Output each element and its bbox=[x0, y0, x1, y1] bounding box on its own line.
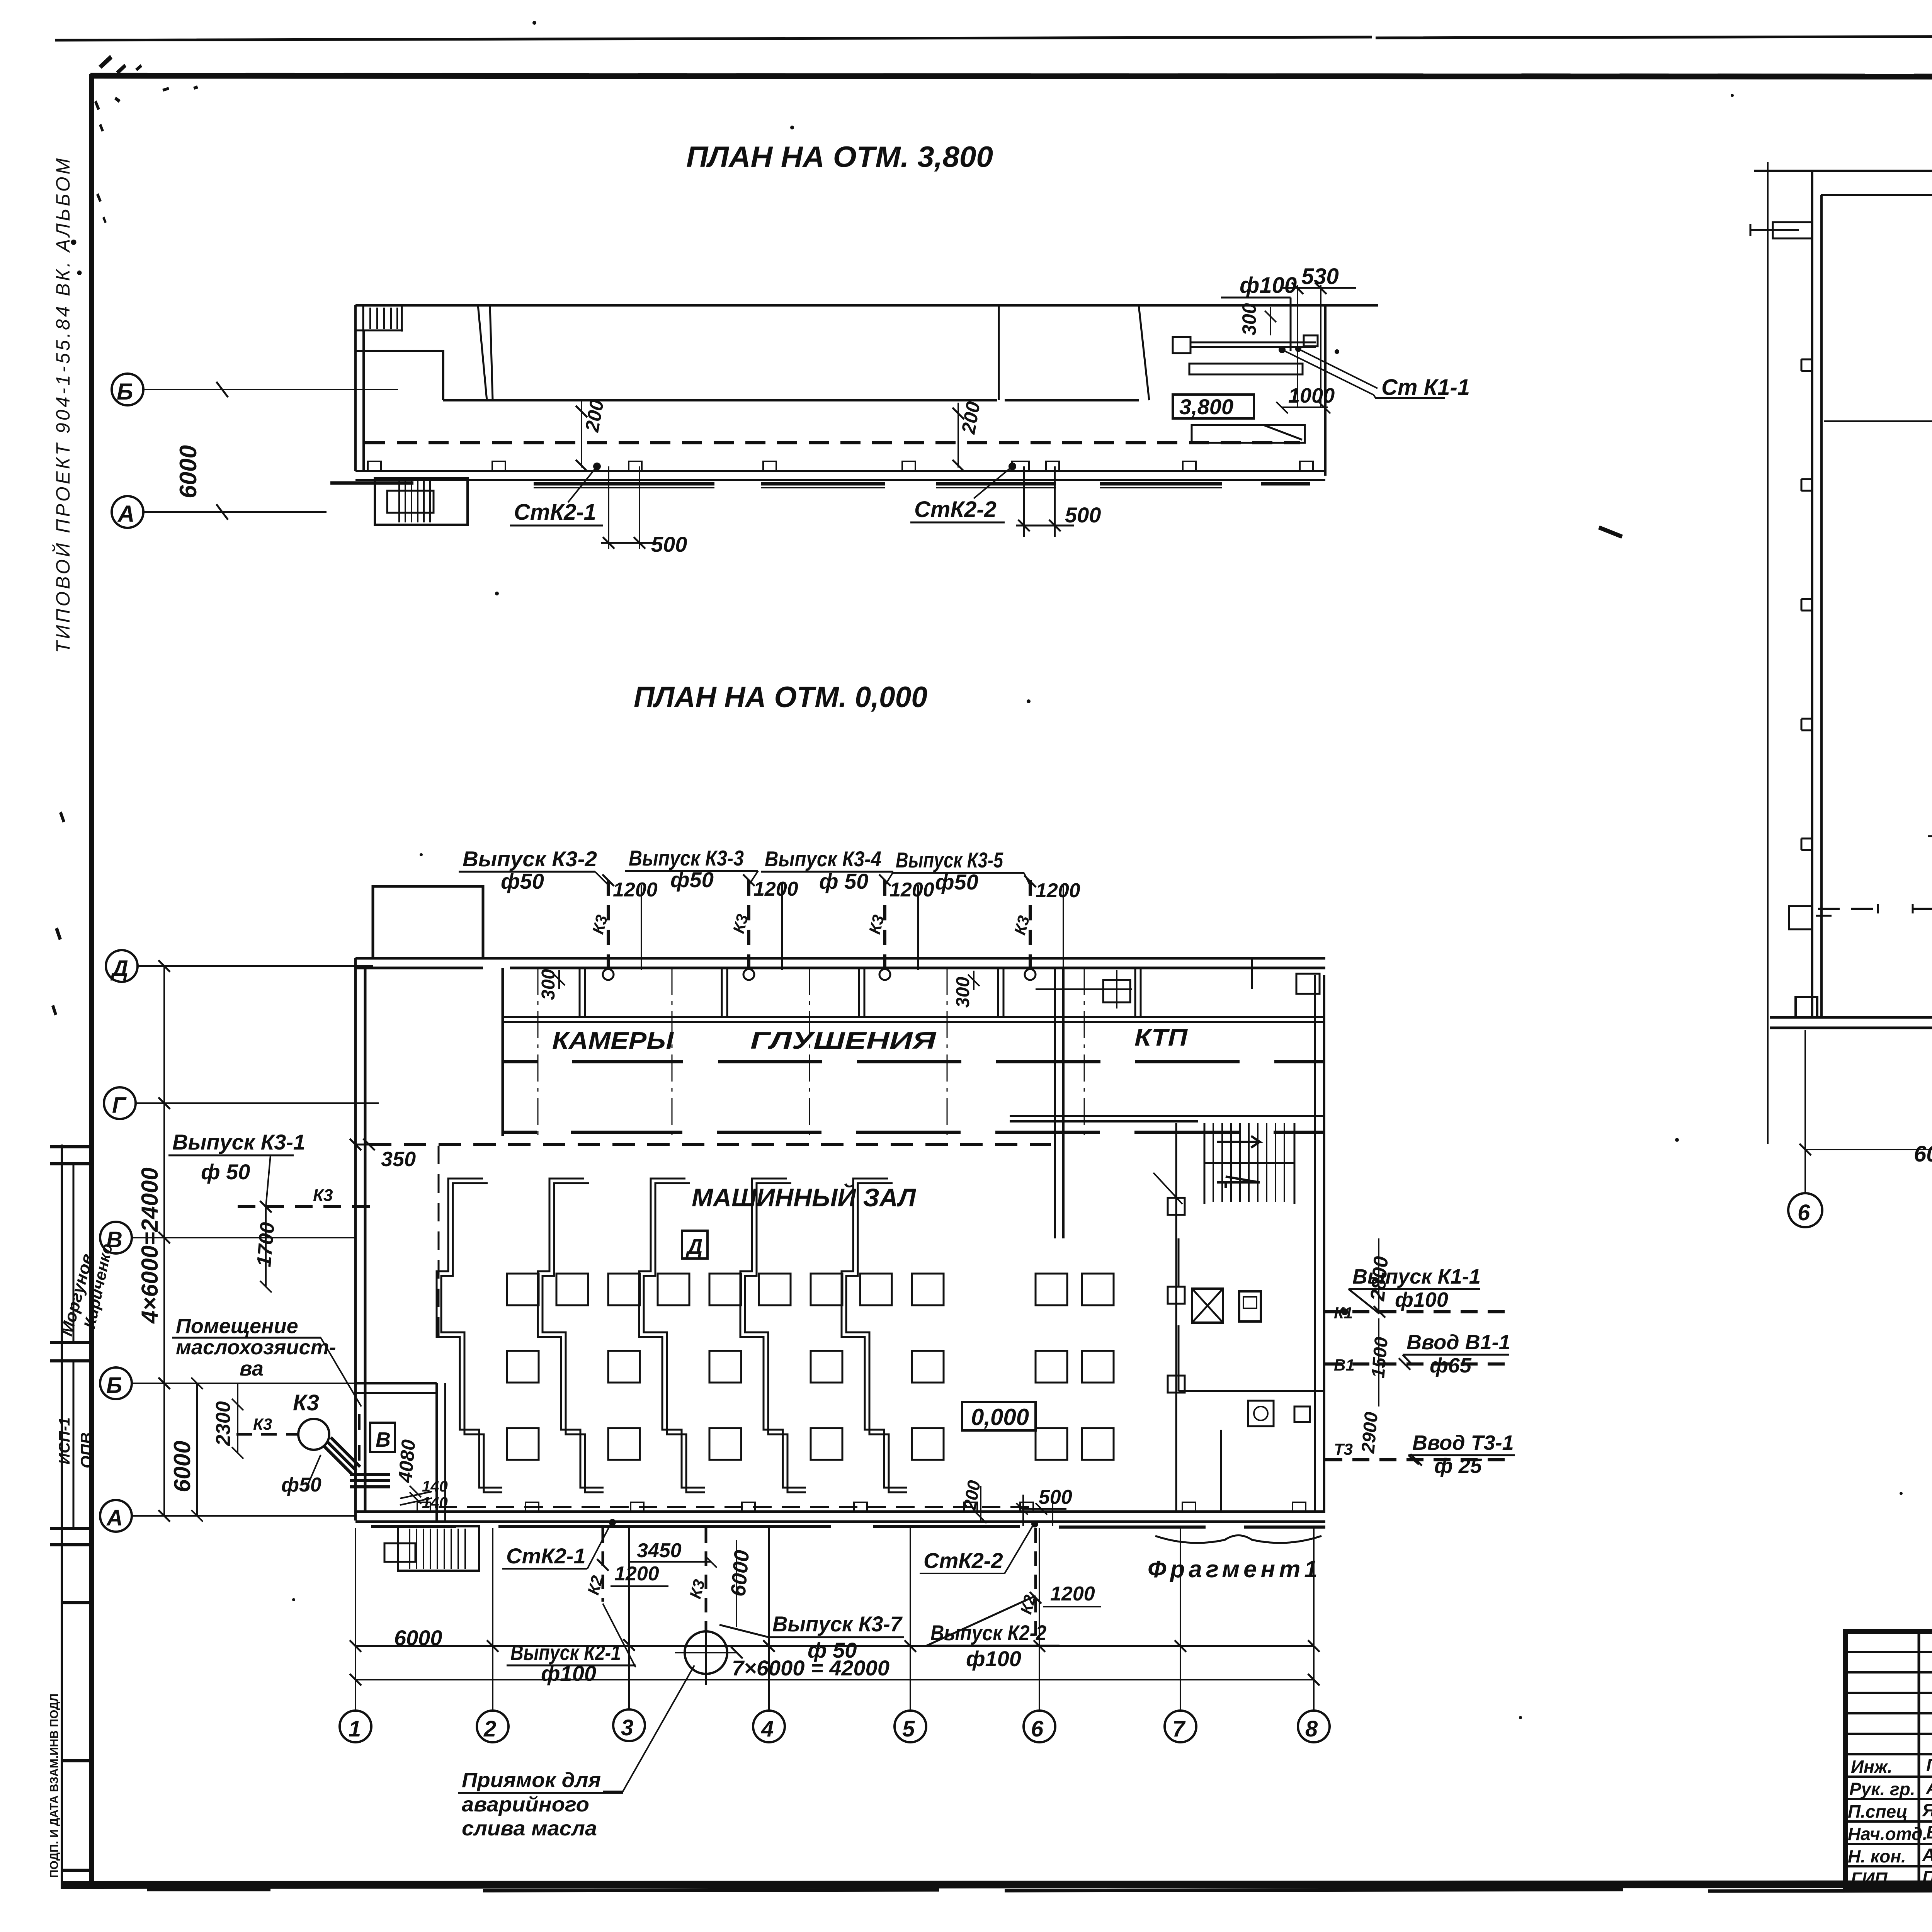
svg-text:2300: 2300 bbox=[212, 1401, 235, 1446]
svg-text:Аникин: Аникин bbox=[1926, 1777, 1932, 1798]
svg-text:ф 50: ф 50 bbox=[201, 1160, 250, 1184]
svg-text:ТИПОВОЙ ПРОЕКТ 904-1-55.84 ВК.: ТИПОВОЙ ПРОЕКТ 904-1-55.84 ВК. АЛЬБОМ bbox=[52, 156, 74, 653]
svg-text:Выпуск К3-7: Выпуск К3-7 bbox=[772, 1612, 903, 1636]
svg-text:ф100: ф100 bbox=[1395, 1288, 1448, 1311]
svg-text:П.спец: П.спец bbox=[1848, 1801, 1908, 1821]
svg-text:0,000: 0,000 bbox=[971, 1404, 1029, 1430]
svg-text:500: 500 bbox=[651, 532, 687, 556]
svg-text:8: 8 bbox=[1305, 1716, 1318, 1742]
svg-text:7: 7 bbox=[1172, 1716, 1186, 1742]
svg-text:Фрагмент1: Фрагмент1 bbox=[1148, 1556, 1321, 1583]
svg-text:ОПВ: ОПВ bbox=[77, 1432, 95, 1468]
svg-text:ф50: ф50 bbox=[281, 1474, 321, 1496]
svg-text:5: 5 bbox=[902, 1716, 915, 1742]
svg-text:СтК2-1: СтК2-1 bbox=[514, 500, 596, 525]
svg-text:Выпуск К3-5: Выпуск К3-5 bbox=[896, 848, 1003, 872]
svg-text:350: 350 bbox=[381, 1148, 416, 1171]
svg-text:3,800: 3,800 bbox=[1179, 395, 1233, 419]
svg-text:500: 500 bbox=[1065, 503, 1101, 527]
svg-text:1200: 1200 bbox=[614, 1563, 659, 1585]
svg-text:А: А bbox=[117, 501, 134, 527]
svg-text:4: 4 bbox=[761, 1716, 774, 1742]
svg-text:Выпуск К3-3: Выпуск К3-3 bbox=[629, 846, 744, 870]
svg-text:4×6000=24000: 4×6000=24000 bbox=[137, 1167, 163, 1324]
svg-text:ИСП-1: ИСП-1 bbox=[56, 1417, 73, 1464]
svg-text:Приямок для: Приямок для bbox=[462, 1769, 601, 1792]
svg-text:СтК2-2: СтК2-2 bbox=[923, 1548, 1003, 1573]
svg-text:Выпуск К3-4: Выпуск К3-4 bbox=[765, 847, 881, 871]
svg-text:маслохозяист-: маслохозяист- bbox=[176, 1336, 336, 1359]
svg-text:Т3: Т3 bbox=[1334, 1440, 1353, 1458]
svg-text:ПОДП. И ДАТА ВЗАМ.ИНВ ПОДЛ: ПОДП. И ДАТА ВЗАМ.ИНВ ПОДЛ bbox=[48, 1694, 61, 1878]
svg-text:Выпуск К3-2: Выпуск К3-2 bbox=[463, 847, 597, 871]
svg-text:300: 300 bbox=[538, 969, 559, 1000]
svg-text:Верченко: Верченко bbox=[1926, 1822, 1932, 1842]
svg-text:2800: 2800 bbox=[1366, 1255, 1393, 1302]
svg-text:300: 300 bbox=[1238, 303, 1260, 335]
svg-text:Выпуск К2-2: Выпуск К2-2 bbox=[930, 1621, 1046, 1645]
svg-text:3450: 3450 bbox=[637, 1539, 682, 1562]
svg-text:2900: 2900 bbox=[1358, 1411, 1382, 1454]
svg-text:ф50: ф50 bbox=[501, 869, 544, 893]
svg-text:ф100: ф100 bbox=[1240, 273, 1297, 298]
svg-text:Б: Б bbox=[106, 1373, 122, 1398]
svg-text:1700: 1700 bbox=[253, 1221, 279, 1268]
svg-text:6000: 6000 bbox=[726, 1549, 753, 1597]
svg-text:Ясиновский: Ясиновский bbox=[1922, 1800, 1932, 1820]
svg-text:2: 2 bbox=[483, 1716, 496, 1742]
svg-text:1500: 1500 bbox=[1368, 1336, 1392, 1379]
svg-text:К3: К3 bbox=[313, 1186, 333, 1205]
svg-text:6000: 6000 bbox=[394, 1626, 442, 1650]
svg-text:Д: Д bbox=[110, 956, 128, 981]
svg-text:ф100: ф100 bbox=[966, 1646, 1021, 1671]
svg-text:ва: ва bbox=[240, 1357, 264, 1380]
svg-text:1200: 1200 bbox=[1036, 879, 1080, 902]
svg-text:ф 50: ф 50 bbox=[819, 869, 868, 893]
svg-text:К3: К3 bbox=[293, 1390, 319, 1415]
svg-text:4080: 4080 bbox=[394, 1439, 420, 1484]
svg-text:6: 6 bbox=[1798, 1200, 1810, 1225]
svg-text:Г: Г bbox=[112, 1093, 127, 1118]
svg-text:1200: 1200 bbox=[1050, 1583, 1095, 1605]
svg-text:Б: Б bbox=[117, 379, 133, 405]
svg-text:аварийного: аварийного bbox=[462, 1793, 589, 1816]
svg-text:ф50: ф50 bbox=[670, 867, 714, 892]
svg-text:Инж.: Инж. bbox=[1851, 1757, 1893, 1777]
svg-text:Помещение: Помещение bbox=[176, 1315, 298, 1338]
svg-text:ПЛАН НА ОТМ. 3,800: ПЛАН НА ОТМ. 3,800 bbox=[686, 141, 993, 173]
svg-text:Александров: Александров bbox=[1922, 1845, 1932, 1865]
svg-text:140: 140 bbox=[422, 1494, 448, 1511]
svg-text:слива масла: слива масла bbox=[462, 1817, 597, 1840]
svg-text:КТП: КТП bbox=[1134, 1024, 1188, 1051]
svg-text:В1: В1 bbox=[1334, 1356, 1355, 1374]
svg-text:Нач.отд.: Нач.отд. bbox=[1848, 1824, 1927, 1844]
svg-text:ГИП: ГИП bbox=[1851, 1869, 1888, 1889]
svg-text:К3: К3 bbox=[253, 1415, 272, 1433]
svg-text:1200: 1200 bbox=[753, 878, 798, 900]
svg-text:Н. кон.: Н. кон. bbox=[1848, 1846, 1906, 1866]
svg-text:6000: 6000 bbox=[175, 445, 202, 498]
svg-text:6: 6 bbox=[1031, 1716, 1044, 1742]
svg-text:Ввод В1-1: Ввод В1-1 bbox=[1406, 1331, 1510, 1354]
svg-text:1: 1 bbox=[349, 1716, 361, 1742]
svg-text:Ст К1-1: Ст К1-1 bbox=[1381, 375, 1470, 400]
svg-text:Псташевский: Псташевский bbox=[1922, 1867, 1932, 1887]
svg-text:3: 3 bbox=[621, 1715, 633, 1740]
svg-text:ф 25: ф 25 bbox=[1434, 1454, 1482, 1478]
svg-text:ф50: ф50 bbox=[935, 870, 978, 894]
svg-text:ПЛАН НА ОТМ. 0,000: ПЛАН НА ОТМ. 0,000 bbox=[634, 681, 927, 714]
svg-text:ф65: ф65 bbox=[1430, 1354, 1472, 1377]
svg-text:1200: 1200 bbox=[613, 879, 658, 901]
svg-text:Выпуск К3-1: Выпуск К3-1 bbox=[172, 1130, 305, 1154]
svg-text:1200: 1200 bbox=[889, 879, 934, 901]
svg-text:140: 140 bbox=[422, 1478, 448, 1495]
svg-text:ГЛУШЕНИЯ: ГЛУШЕНИЯ bbox=[750, 1027, 937, 1054]
svg-text:Д: Д bbox=[685, 1234, 702, 1259]
svg-text:6000: 6000 bbox=[169, 1441, 195, 1492]
svg-text:КАМЕРЫ: КАМЕРЫ bbox=[552, 1027, 674, 1054]
svg-text:ф100: ф100 bbox=[541, 1661, 596, 1685]
svg-text:ф 50: ф 50 bbox=[808, 1638, 857, 1662]
svg-text:Пундиков: Пундиков bbox=[1926, 1755, 1932, 1775]
svg-text:СтК2-1: СтК2-1 bbox=[506, 1544, 586, 1568]
svg-text:К1: К1 bbox=[1334, 1304, 1353, 1322]
svg-text:МАШИННЫЙ ЗАЛ: МАШИННЫЙ ЗАЛ bbox=[692, 1183, 917, 1212]
svg-text:СтК2-2: СтК2-2 bbox=[914, 497, 997, 522]
svg-text:1000: 1000 bbox=[1288, 384, 1335, 407]
svg-text:Ввод Т3-1: Ввод Т3-1 bbox=[1412, 1431, 1514, 1454]
svg-text:В: В bbox=[376, 1428, 391, 1451]
svg-text:300: 300 bbox=[953, 977, 973, 1008]
svg-text:500: 500 bbox=[1039, 1486, 1072, 1509]
svg-text:А: А bbox=[106, 1505, 123, 1531]
svg-text:Рук. гр.: Рук. гр. bbox=[1849, 1779, 1915, 1799]
svg-text:6000: 6000 bbox=[1914, 1141, 1932, 1167]
